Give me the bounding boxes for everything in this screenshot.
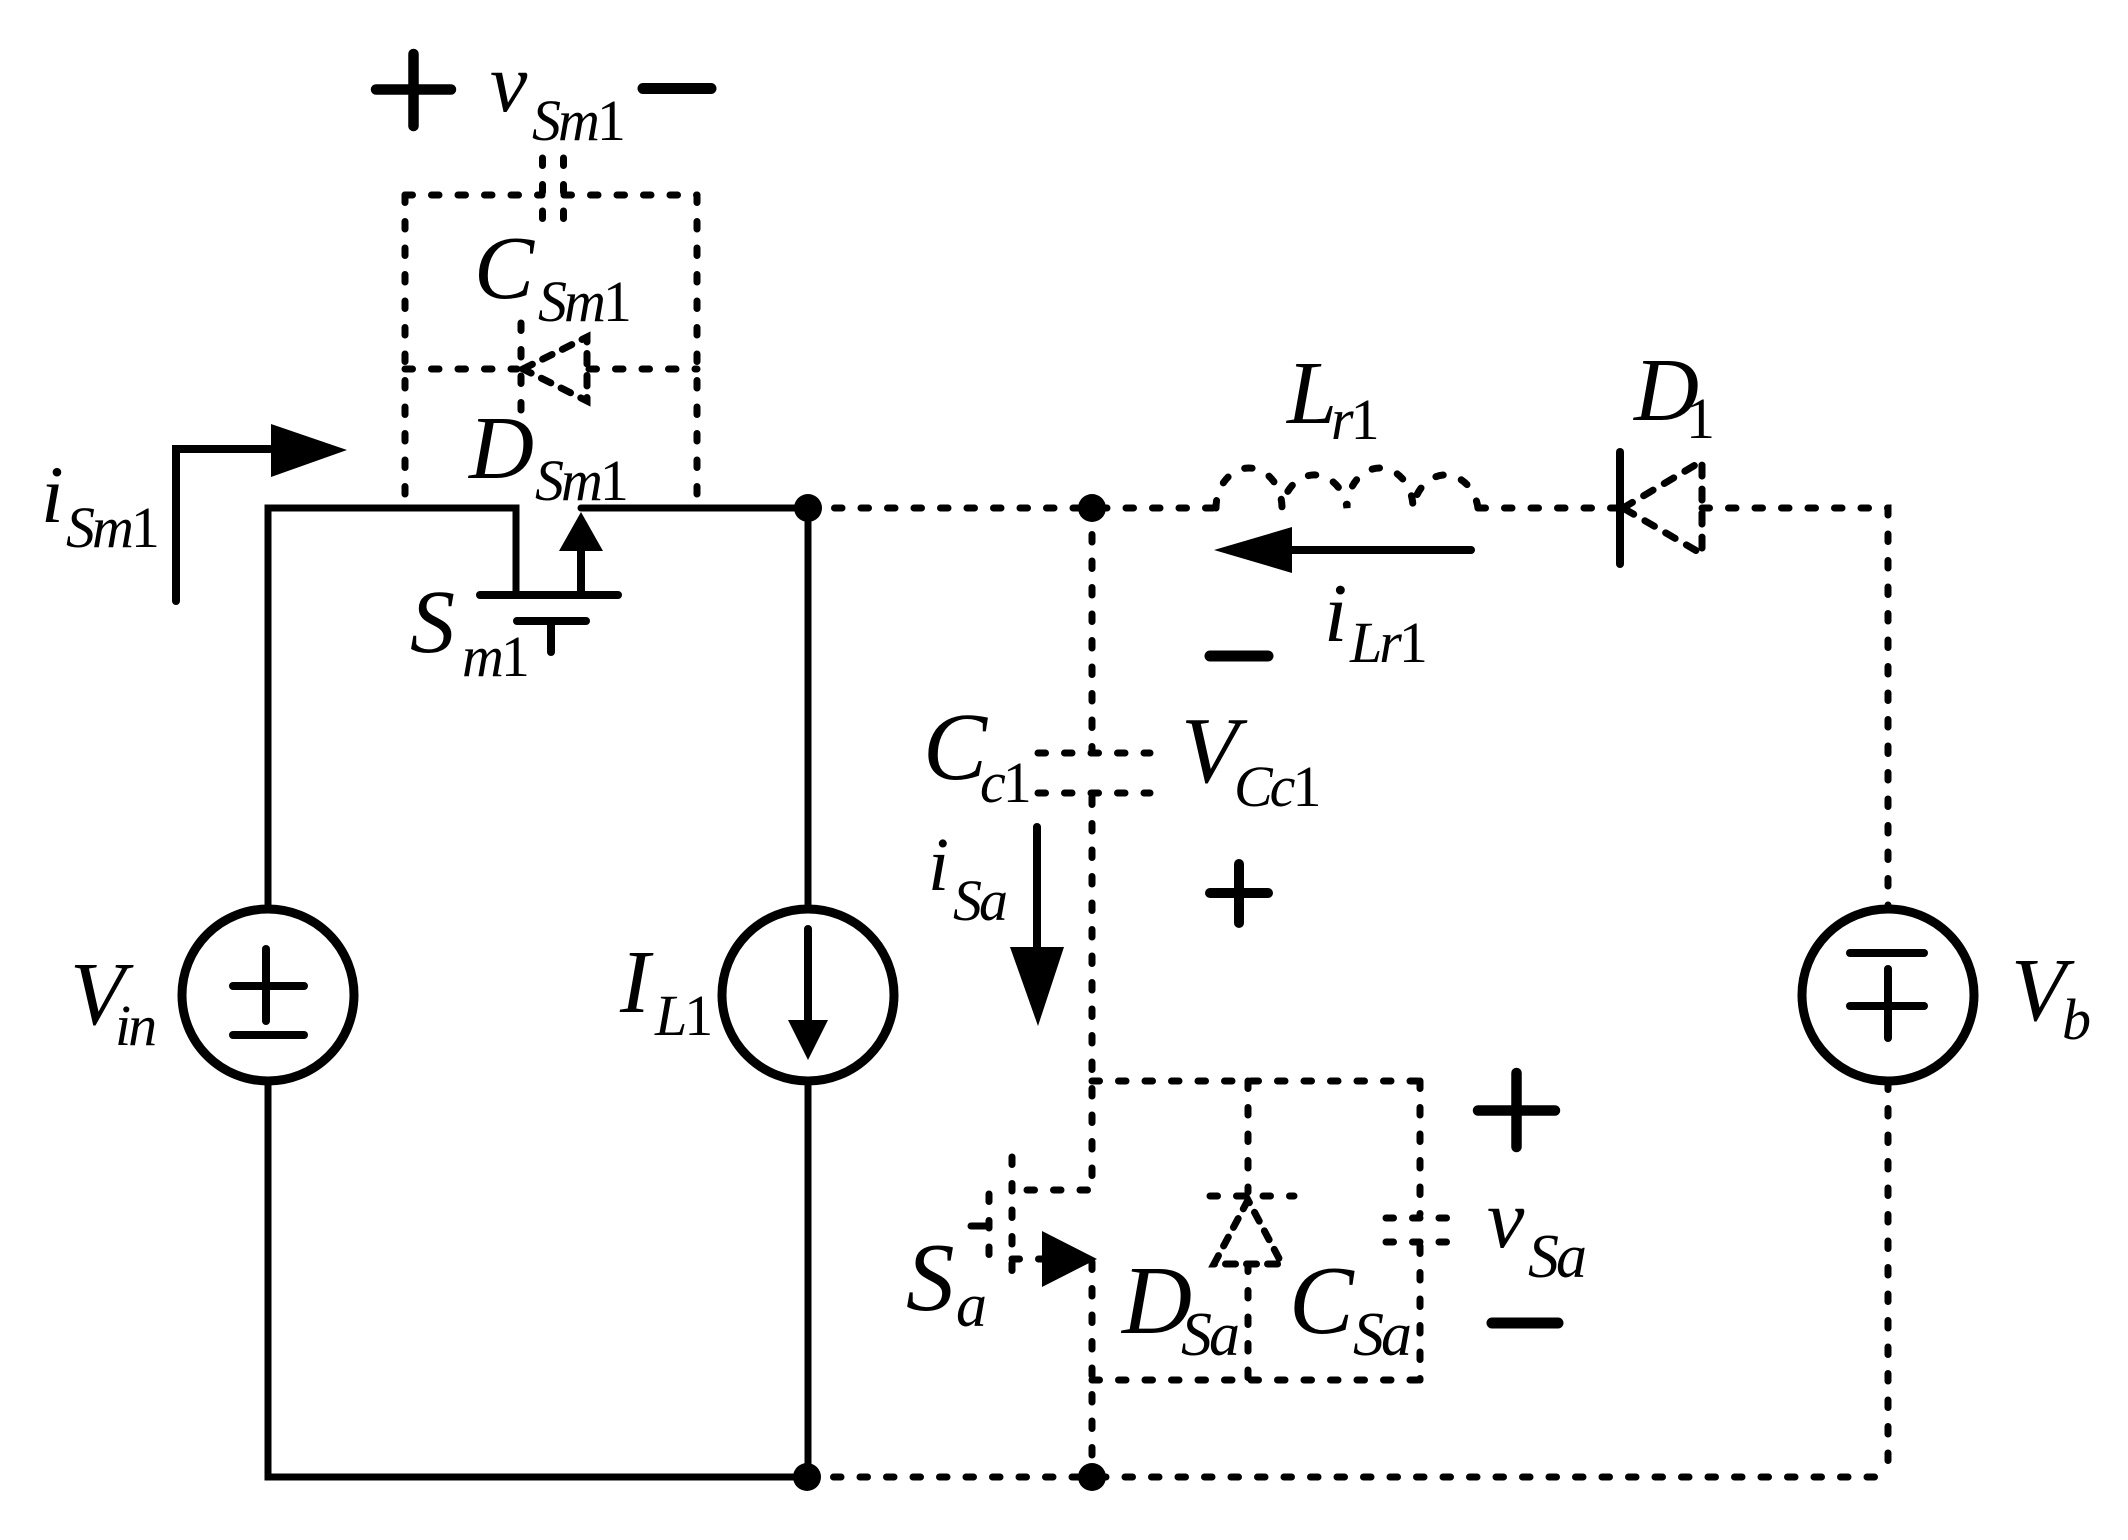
svg-text:i: i [1324,567,1347,660]
svg-text:Cc1: Cc1 [1234,754,1318,819]
svg-text:Sm1: Sm1 [532,88,623,153]
svg-text:S: S [906,1224,955,1331]
svg-text:v: v [490,37,528,130]
svg-text:C: C [1289,1247,1355,1354]
svg-text:1: 1 [1686,386,1712,451]
svg-text:C: C [923,693,988,800]
svg-text:L: L [1285,344,1337,443]
svg-text:Sm1: Sm1 [535,448,626,513]
svg-text:Sa: Sa [1353,1301,1410,1369]
svg-text:Sa: Sa [1181,1301,1238,1369]
svg-text:i: i [41,449,64,540]
svg-text:L1: L1 [654,983,710,1048]
svg-text:v: v [1487,1173,1525,1266]
svg-text:m1: m1 [462,624,527,689]
svg-text:a: a [956,1272,985,1340]
svg-text:Sa: Sa [1528,1223,1585,1291]
svg-text:c1: c1 [980,750,1029,815]
svg-text:C: C [474,219,535,318]
svg-text:I: I [619,933,654,1032]
svg-text:Lr1: Lr1 [1349,610,1425,675]
svg-text:Sa: Sa [953,868,1006,933]
svg-text:i: i [928,823,949,907]
svg-text:r1: r1 [1331,387,1377,452]
svg-text:D: D [467,399,534,498]
svg-text:in: in [115,993,155,1058]
svg-text:Sm1: Sm1 [538,269,629,334]
svg-text:b: b [2062,987,2090,1052]
svg-text:Sm1: Sm1 [66,495,157,560]
svg-text:S: S [410,573,455,672]
